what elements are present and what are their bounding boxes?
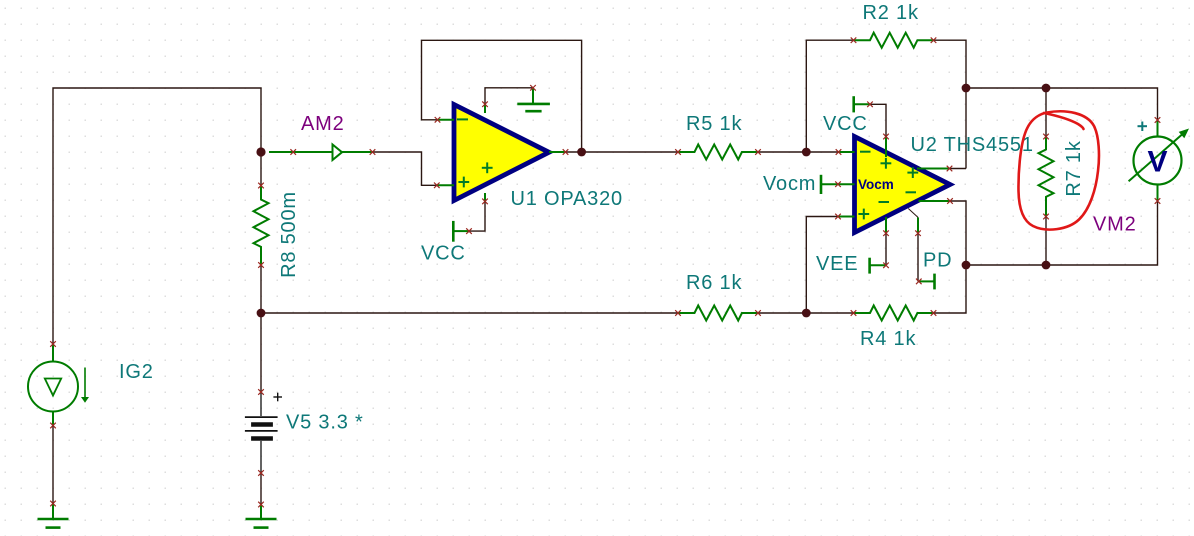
wire: node B to R6 bbox=[261, 312, 678, 314]
wire: U2 VEE pin drop bbox=[885, 233, 887, 265]
svg-text:Vocm: Vocm bbox=[763, 173, 816, 195]
wire: R2 right branch down to OUT+ bbox=[934, 40, 967, 168]
wire: top rail to VM2 bbox=[966, 88, 1158, 120]
svg-text:VEE: VEE bbox=[816, 253, 858, 275]
Vocm flag bar bbox=[820, 175, 823, 194]
wire: R7 bottom to rail bbox=[1045, 217, 1047, 266]
wire: U1 feedback loop output to inverting input bbox=[422, 40, 582, 152]
svg-text:R8 500m: R8 500m bbox=[278, 191, 300, 278]
U2 pin: Vocm input bbox=[838, 183, 855, 185]
R7 bottom junction bbox=[1042, 261, 1051, 270]
wire: IG2 bottom to ground bbox=[52, 426, 54, 504]
resistor R6 1k bbox=[678, 306, 758, 321]
wire: R2 left branch bbox=[806, 40, 853, 152]
U2 PD pin diagonal lead from body bbox=[908, 209, 918, 218]
wire: R5 to U2 inverting input bbox=[758, 151, 839, 153]
battery V5 plates bbox=[245, 392, 282, 473]
wire: U2 PD pin drop bbox=[917, 233, 919, 281]
U1 pin: bottom supply bbox=[484, 193, 486, 202]
wire: bottom rail to VM2 bottom bbox=[966, 201, 1158, 265]
current source IG2 inner triangle bbox=[45, 379, 61, 396]
svg-text:VM2: VM2 bbox=[1093, 214, 1137, 236]
battery V5 pins bbox=[260, 392, 262, 416]
wire: node B to V5 battery bbox=[260, 313, 262, 392]
R7 top junction bbox=[1042, 84, 1051, 93]
VCC flag for U1 bbox=[452, 221, 455, 242]
svg-text:VCC: VCC bbox=[823, 113, 868, 135]
wire: bottom rail down to R4 right bbox=[934, 265, 967, 313]
U2 pin: inverting input bbox=[839, 151, 855, 153]
resistor R8 500m (vertical) bbox=[254, 186, 269, 266]
wire: V5 battery to ground bbox=[260, 473, 262, 505]
wire: R6 to R4 bbox=[758, 312, 854, 314]
U1 output junction bbox=[577, 148, 586, 157]
voltmeter VM2 diagonal arrow bbox=[1129, 135, 1182, 182]
current source IG2 pin bottom bbox=[52, 412, 54, 426]
voltmeter VM2 top pin bbox=[1157, 120, 1159, 137]
resistor R4 1k bbox=[854, 306, 934, 321]
wire: rail to R7 top bbox=[1045, 88, 1047, 137]
wire: U1 top pin to ground bbox=[485, 88, 533, 104]
wire: U1 output to R5 bbox=[566, 151, 679, 153]
wire: node A to R8 top bbox=[260, 152, 262, 186]
ground under V5 bbox=[260, 505, 262, 520]
svg-text:U1 OPA320: U1 OPA320 bbox=[511, 188, 623, 210]
wire: AM2 to U1 non-inverting input bbox=[374, 152, 437, 185]
wire: OUT+ stub to vertical bbox=[950, 168, 967, 170]
voltmeter VM2 circle bbox=[1134, 137, 1182, 185]
U2 pin: VEE supply bbox=[885, 217, 887, 233]
OUT- rail junction bbox=[962, 261, 971, 270]
battery V5 plus sign bbox=[273, 396, 282, 398]
VCC flag for U2 bbox=[852, 96, 855, 112]
freehand red circle tail bbox=[1044, 113, 1084, 129]
resistor R5 1k bbox=[678, 145, 758, 160]
VEE flag bbox=[868, 258, 871, 274]
svg-text:R5 1k: R5 1k bbox=[686, 113, 742, 135]
svg-text:V: V bbox=[1147, 146, 1167, 179]
U2 pin: top supply bbox=[885, 137, 887, 158]
wire: R8 bottom to node B bbox=[260, 265, 262, 313]
U2 inner polarity marks bbox=[858, 152, 918, 220]
U1 pin: output bbox=[549, 151, 566, 153]
resistor R2 1k bbox=[854, 33, 934, 48]
svg-text:AM2: AM2 bbox=[301, 113, 345, 135]
op-amp U2 THS4551 body bbox=[855, 137, 951, 233]
U1 pin: top supply bbox=[484, 104, 486, 114]
current source IG2 direction arrow bbox=[84, 368, 86, 398]
ammeter AM2 line bbox=[269, 151, 373, 153]
current source IG2 pin top bbox=[52, 344, 54, 362]
svg-text:R4 1k: R4 1k bbox=[860, 328, 916, 350]
U2 pin: non-inverting input bbox=[838, 216, 855, 218]
OUT+ rail junction bbox=[962, 84, 971, 93]
U2 pin: OUT- bbox=[919, 200, 951, 202]
U2 pin: OUT+ bbox=[917, 168, 950, 170]
resistor R7 1k (vertical) bbox=[1039, 137, 1054, 217]
R6/R4 junction bbox=[802, 309, 811, 318]
svg-text:U2 THS4551: U2 THS4551 bbox=[911, 134, 1034, 156]
U2 pin: PD lead bbox=[917, 217, 919, 233]
svg-text:IG2: IG2 bbox=[119, 361, 154, 383]
op-amp U1 OPA320 body bbox=[454, 105, 549, 201]
svg-text:R6 1k: R6 1k bbox=[686, 272, 742, 294]
U1 pin: inverting input bbox=[438, 119, 455, 121]
U1 pin: non-inverting input bbox=[437, 184, 454, 186]
wire: U2 non-inverting input drop to node C bbox=[806, 217, 838, 314]
ground under IG2 bbox=[52, 504, 54, 520]
voltmeter VM2 bottom pin bbox=[1157, 185, 1159, 202]
VM2 plus sign bbox=[1138, 122, 1148, 132]
freehand red circle annotation around R7 bbox=[1018, 111, 1098, 229]
PD flag bbox=[933, 274, 936, 290]
current source IG2 circle bbox=[28, 362, 78, 412]
node A junction bbox=[256, 147, 265, 156]
svg-text:R7 1k: R7 1k bbox=[1063, 140, 1085, 196]
ground at U1 top pin bbox=[532, 88, 534, 104]
ammeter AM2 arrow bbox=[333, 145, 343, 161]
svg-text:VCC: VCC bbox=[421, 243, 466, 265]
node B junction bbox=[257, 309, 266, 318]
U1 inner polarity marks bbox=[457, 119, 493, 187]
svg-text:Vocm: Vocm bbox=[858, 177, 894, 192]
svg-text:PD: PD bbox=[923, 250, 952, 272]
svg-text:R2 1k: R2 1k bbox=[863, 2, 919, 24]
svg-text:V5 3.3 *: V5 3.3 * bbox=[286, 412, 364, 434]
wire: U1 bottom pin to VCC flag bbox=[469, 201, 485, 231]
wire: OUT- to bottom rail bbox=[950, 201, 966, 265]
R5/R2 junction bbox=[802, 148, 811, 157]
wire: U2 top supply pin to VCC flag bbox=[870, 104, 886, 136]
